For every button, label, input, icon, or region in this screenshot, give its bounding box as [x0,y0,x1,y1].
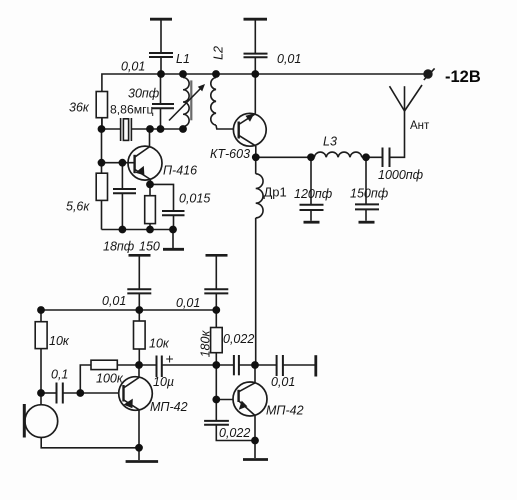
wire KT-603 emitter row [256,156,311,158]
svg-text:КТ-603: КТ-603 [210,147,250,161]
svg-text:0,01: 0,01 [176,296,200,310]
capacitor 0,01 AF-left [127,257,151,311]
svg-text:Др1: Др1 [264,185,287,200]
svg-text:0,01: 0,01 [277,52,301,66]
svg-text:36к: 36к [69,101,90,115]
svg-text:0,022: 0,022 [219,426,250,440]
resistor 36k [96,92,107,118]
capacitor 18pf [113,163,136,230]
wire to output terminal [283,364,315,366]
wire MP42-2 collector [254,365,256,383]
wire KT-603 collector [254,74,256,114]
svg-text:0,022: 0,022 [223,332,254,346]
svg-text:-12В: -12В [445,68,481,86]
ground MP42-2 [243,441,268,460]
capacitor 0,01 AF-right [204,257,228,311]
wire P-416 base row [102,162,135,164]
wire mic bottom [41,438,139,448]
capacitor 10u electrolytic [157,356,162,378]
terminal output bar [314,355,317,376]
wire top supply bus [102,74,428,129]
wire C2 to bus [254,57,256,74]
capacitor 0,015 [150,184,185,229]
wire 10u to 180k node [162,364,234,366]
svg-text:120пф: 120пф [294,187,333,201]
resistor 150 emitter [145,184,156,229]
arrow variable L1 [169,84,205,121]
wire MP42-1 emitter [138,410,140,448]
wire 0,022 to emitter node [216,425,255,441]
svg-text:100к: 100к [96,372,124,386]
wire MP42-2 emitter [254,416,256,441]
resistor 180k [211,310,223,365]
capacitor 0,01 output [277,355,283,376]
inductor L3 [311,152,366,157]
wire ground stub to C1 [160,21,162,53]
svg-text:МП-42: МП-42 [150,400,188,414]
svg-text:0,01: 0,01 [271,375,295,389]
inductor Dr1 [256,157,263,218]
svg-text:0,1: 0,1 [51,368,68,382]
resistor 10k mic [35,310,47,393]
inductor L1 variable [183,74,189,129]
wire KT-603 emitter [255,146,257,157]
ground MP42-1 [126,448,159,462]
capacitor C 0,01 top-right [244,54,268,58]
svg-text:10к: 10к [49,334,70,348]
core bar L1 [190,80,192,120]
wire 0,022 to collector node [239,364,277,366]
resistor 100k feedback [80,360,139,393]
svg-text:П-416: П-416 [163,164,197,178]
svg-text:МП-42: МП-42 [266,404,304,418]
terminal T-bar left 0,01 [129,254,151,257]
wire oscillator bottom row [102,229,174,231]
svg-text:10µ: 10µ [153,375,174,389]
svg-text:8,86мгц: 8,86мгц [110,103,154,117]
wire P-416 collector [149,129,151,147]
microphone [24,404,57,438]
svg-text:L1: L1 [176,52,190,66]
svg-text:150: 150 [139,240,160,254]
terminal T-bar right 0,01 [206,254,228,257]
ground oscillator [163,230,184,250]
wire L3 to antenna cap [366,156,383,158]
wire Dr1 down to AF section [255,218,257,365]
wire cap to antenna [390,111,405,157]
wire signal row [139,364,157,366]
wire mic top [40,393,42,405]
svg-text:0,01: 0,01 [102,294,126,308]
antenna [390,85,423,111]
wire base row stage2 [216,399,233,401]
wire crystal to L1 [131,128,183,130]
svg-text:150пф: 150пф [350,187,389,201]
ground top-left [150,18,172,21]
transistor P-416 [128,146,162,180]
wire base row stage1 [41,392,57,394]
transistor KT-603 [233,113,266,146]
ground top-right [244,18,268,21]
terminal -12V [424,68,435,80]
transistor MP-42 first [119,377,153,411]
wire P-416 emitter [149,180,151,185]
capacitor 30pf [152,74,174,129]
svg-text:5,6к: 5,6к [66,200,90,214]
svg-text:+: + [166,351,174,367]
wire ground stub to C2 [254,21,256,54]
svg-text:0,01: 0,01 [121,60,145,74]
svg-text:30пф: 30пф [128,87,160,101]
quartz crystal 8,86mhz [121,118,132,141]
svg-text:180к: 180к [199,330,213,358]
capacitor 0,022 base [204,421,229,425]
svg-text:L3: L3 [323,135,337,149]
resistor 5,6k [96,163,107,230]
svg-text:0,015: 0,015 [179,192,210,206]
resistor 10k collector [134,310,146,365]
wire cap to base [63,392,119,394]
inductor L2 [211,74,234,129]
capacitor 1000pf [383,148,390,168]
capacitor C 0,01 top-left [149,53,173,57]
svg-text:10к: 10к [149,337,170,351]
svg-text:Ант: Ант [410,120,430,132]
wire 180k node down to base [215,365,217,421]
capacitor 0,022 series [234,355,239,375]
capacitor 0,1 [57,383,63,404]
wire AF supply bus [41,309,216,311]
svg-text:18пф: 18пф [103,240,135,254]
transistor MP-42 second [233,382,267,416]
wire left rail crystal row to base row [101,129,103,163]
svg-text:L2: L2 [212,46,226,60]
capacitor 120pf [300,157,324,222]
wire crystal row [102,128,121,130]
wire 36k to crystal row [101,118,103,129]
capacitor 150pf [355,157,379,222]
svg-text:1000пф: 1000пф [378,168,424,182]
wire MP42-1 collector [138,365,140,378]
wire C1 to bus [160,57,162,74]
